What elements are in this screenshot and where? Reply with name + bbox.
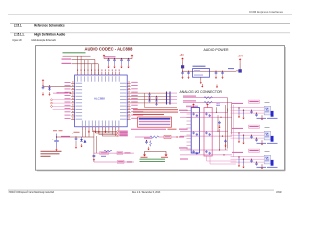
capacitor C60 top rows — [217, 104, 220, 106]
net label left of jack J5 — [232, 152, 243, 153]
ground D2 — [81, 144, 83, 146]
regulator U2 body — [193, 69, 210, 78]
header J1 body — [191, 108, 199, 154]
cluster resistor near table — [150, 141, 152, 147]
capacitor C50 — [181, 71, 184, 75]
wire +5V feed — [183, 62, 237, 71]
callout table box — [138, 117, 172, 127]
text row below table — [131, 129, 166, 130]
net label boxed row1 b — [117, 151, 123, 154]
codec U1 bottom pin names — [81, 121, 84, 127]
wire top row LINE2_L — [183, 97, 228, 99]
wire channel group 3 R — [180, 154, 232, 156]
wire vertical risers mid analog — [217, 107, 220, 150]
codec U1 left pins — [71, 83, 74, 119]
svg-text:AUDIO CODEC - ALC888: AUDIO CODEC - ALC888 — [85, 46, 134, 51]
net label row1 c — [125, 152, 131, 153]
ferrite bead column FB3 — [167, 92, 171, 105]
junction dots group 1 — [216, 112, 217, 113]
jack J3 body — [264, 106, 270, 115]
wire vertical bus right — [233, 105, 235, 157]
net labels bottom stack — [117, 131, 119, 133]
ground mark x94 — [93, 159, 95, 161]
wire HDA_SYNC — [72, 64, 99, 75]
ground row under codec — [88, 130, 90, 131]
capacitors in J1 group 3 — [192, 150, 194, 153]
note green top-left — [63, 52, 86, 53]
jack J3 rc network — [250, 110, 253, 114]
jack J4 barrel — [271, 136, 274, 142]
codec left net labels — [65, 81, 71, 84]
capacitor inline x94 — [93, 156, 96, 157]
wire HDA_BCLK vertical — [78, 56, 92, 72]
wire AVDD rail — [104, 58, 132, 60]
ground C41 — [75, 145, 77, 147]
jack J5 caption — [257, 167, 278, 168]
wire mid-bottom row 2 — [94, 161, 134, 163]
wire vertical x96.5 — [95, 136, 97, 153]
wire codec bottom verticals — [81, 130, 83, 137]
cluster label near table — [144, 138, 152, 139]
net label left of jack J4 — [232, 127, 243, 130]
junction dots group 3 — [219, 149, 220, 150]
wire red vertical right bundle — [145, 93, 178, 107]
resistor R13 blue squiggle — [104, 150, 112, 152]
frame shadow — [37, 47, 285, 171]
capacitors in J2 group 2 — [205, 131, 207, 134]
capacitor C30 column — [148, 93, 150, 103]
capacitor C11 — [113, 59, 116, 63]
svg-text:+3V3: +3V3 — [238, 56, 244, 58]
wire mic bias rail — [43, 83, 71, 86]
no-connect diamond AZ — [176, 136, 178, 138]
label FB1 value — [228, 67, 234, 70]
header rule — [8, 13, 292, 16]
jack J5 label CON — [265, 150, 270, 153]
label TP2 — [161, 157, 168, 158]
net label boxed AZ — [164, 135, 171, 138]
jack J3 barrel — [271, 111, 274, 117]
capacitor C20 — [42, 86, 45, 90]
heading rule 2.15.1.1 — [10, 32, 290, 35]
label TP1 — [141, 157, 148, 158]
ferrite bead FB1 — [238, 69, 241, 72]
wire bottom-left run — [57, 136, 94, 138]
header J1 left stubs — [187, 111, 192, 150]
callout table rows — [139, 118, 171, 120]
svg-text:107/218: 107/218 — [276, 191, 282, 194]
wire mid-bottom row 1 — [94, 152, 134, 154]
jack J5 barrel — [271, 160, 274, 166]
cluster ground near table — [148, 147, 150, 149]
capacitor C10 — [107, 59, 110, 63]
capacitor analog mid 1 — [218, 121, 221, 125]
test point TP2 — [165, 155, 168, 157]
jack J4 rc network — [250, 135, 253, 139]
codec U1 right pins — [127, 83, 130, 119]
note dark red bottom-left — [41, 151, 62, 152]
jack J5 wires — [231, 156, 264, 162]
ground jack J5 — [261, 164, 263, 166]
ground C40 — [56, 148, 58, 150]
codec U1 top pins — [78, 72, 120, 75]
net label filled pink — [186, 106, 198, 108]
resistor network jack J5 — [239, 157, 244, 165]
net label group 1 — [179, 110, 188, 111]
wire HDA_SDOUT — [72, 60, 95, 76]
capacitor C12 — [120, 59, 123, 63]
svg-text:ANALOG I/O CONNECTOR: ANALOG I/O CONNECTOR — [180, 89, 223, 94]
codec U1 top pin numbers — [77, 69, 78, 71]
wire below pink header — [207, 156, 237, 164]
svg-text:Rev. 2.0 / December 6, 2013: Rev. 2.0 / December 6, 2013 — [132, 191, 161, 194]
jack J4 body — [264, 131, 270, 140]
jack J3 wires — [231, 107, 264, 113]
ground regulator U2 — [200, 77, 202, 80]
wire vertical risers mid analog 2 — [226, 105, 228, 150]
codec U1 left pin numbers — [72, 82, 74, 83]
svg-text:Figure 39.: Figure 39. — [13, 38, 23, 42]
resistor network jack J4 — [239, 133, 244, 141]
wire cap stems down — [109, 62, 129, 65]
capacitor analog mid 2 — [224, 140, 227, 144]
label JD blue — [101, 156, 106, 157]
power arrows header top — [193, 105, 195, 108]
svg-text:2.15.1.: 2.15.1. — [14, 24, 22, 28]
ground jack J4 — [261, 140, 263, 142]
wire channel group 1 L — [180, 111, 228, 113]
ground arrow analog title right — [216, 85, 218, 87]
resistor R20 inline row1 — [204, 97, 212, 99]
no-connect diamonds left — [50, 99, 52, 101]
capacitor C51 — [187, 71, 190, 75]
ground cluster jack J3 — [238, 115, 240, 117]
wire AZ line to analog section — [135, 136, 176, 138]
wire bottom staircase to labels — [92, 131, 116, 133]
net label left of jack J3 — [232, 103, 243, 104]
codec U1 right pin names — [120, 82, 127, 85]
regulator U2 pin text — [194, 69, 200, 72]
power flag AVDD — [103, 56, 105, 59]
wire top row LINE2_R — [183, 101, 232, 103]
label C40 value — [53, 129, 57, 132]
net label HDA_SYNC — [62, 63, 72, 64]
jack J5 rc network — [250, 159, 253, 163]
wire channel group 2 R — [180, 135, 232, 137]
capacitor C13 — [127, 59, 130, 63]
net label boxed row1 a — [100, 151, 109, 154]
capacitors in J1 group 2 — [192, 131, 194, 134]
heading rule 2.15.1 — [10, 22, 290, 25]
codec U1 right pin numbers — [128, 82, 130, 83]
capacitors in J2 group 3 — [205, 150, 207, 153]
note green bottom middle — [140, 158, 166, 161]
svg-text:PICMG® COM Express® Carrier Bo: PICMG® COM Express® Carrier Board Design… — [9, 191, 54, 194]
jack J4 caption — [257, 143, 278, 144]
svg-text:+5V: +5V — [180, 54, 185, 57]
power flag +V left — [42, 81, 44, 84]
svg-text:COM Express Interfaces: COM Express Interfaces — [249, 10, 283, 14]
capacitor C31 column — [155, 96, 157, 106]
wire channel group 2 L — [180, 130, 228, 132]
net label below header — [180, 159, 188, 160]
jack J5 body — [264, 155, 270, 164]
wire vertical x94 — [93, 130, 95, 162]
wire bead to +3V3A — [236, 63, 240, 71]
wire mic in with label — [53, 92, 59, 94]
diode D1 — [48, 86, 51, 91]
ground arrow analog title left — [201, 84, 203, 86]
power flag AVDD right — [131, 56, 133, 59]
resistor network jack J3 — [239, 108, 244, 116]
jack J3 label CON — [265, 101, 270, 104]
codec U1 left pin names — [76, 82, 83, 85]
capacitors in J2 group 1 — [205, 112, 207, 115]
wire channel group 1 R — [180, 116, 232, 118]
jack J3 caption — [257, 118, 278, 119]
net labels right of codec — [131, 81, 138, 84]
note red mid — [133, 109, 178, 110]
capacitor C53 — [221, 71, 224, 75]
net label group 3 — [179, 147, 188, 148]
resistor R21 inline row2 — [204, 101, 212, 103]
header J2 body (pink) — [204, 108, 212, 157]
net label row2 b — [127, 161, 132, 162]
capacitors in J1 group 1 — [192, 112, 194, 115]
jack J4 wires — [231, 132, 264, 138]
codec U1 bottom pins — [82, 127, 119, 130]
power flag +3V3A — [239, 60, 241, 63]
svg-text:2.15.1.1.: 2.15.1.1. — [14, 33, 25, 37]
ferrite bead FB2 at +5V — [181, 65, 184, 68]
label C41 value — [74, 131, 80, 134]
net label group 2 — [179, 129, 188, 130]
svg-text:High Definition Audio: High Definition Audio — [34, 33, 65, 37]
svg-text:HDA Example Schematic: HDA Example Schematic — [32, 38, 57, 42]
ground cluster jack J5 — [238, 164, 240, 166]
regulator U2 label — [193, 66, 206, 67]
wire codec top bus — [63, 55, 91, 57]
net label boxed jack J5 — [249, 149, 260, 152]
jack J4 label CON — [265, 126, 270, 129]
net label boxed jack J3 — [249, 100, 260, 103]
ground jack J3 — [261, 115, 263, 117]
wire riser top row 1 — [228, 98, 232, 135]
net label HDA_SDOUT — [62, 59, 72, 60]
ground mic bias — [42, 92, 44, 94]
schematic frame — [36, 46, 285, 171]
footer rule — [8, 189, 274, 192]
wire codec right bundle — [131, 93, 170, 103]
diode D2 — [80, 137, 83, 142]
net label AUDIO 3V3 rail — [105, 56, 116, 57]
capacitor C52 — [215, 71, 218, 75]
net label boxed row2 — [118, 160, 125, 163]
ground C52 C53 — [215, 75, 217, 77]
net label inline mic — [61, 136, 70, 137]
svg-text:AUDIO POWER: AUDIO POWER — [204, 47, 229, 52]
ground C50 — [182, 75, 184, 77]
resistor R12 inline — [150, 136, 159, 138]
cluster cap near table — [145, 141, 148, 145]
test point TP1 — [143, 155, 146, 157]
svg-text:ALC888: ALC888 — [94, 97, 105, 101]
svg-text:Reference Schematics: Reference Schematics — [34, 24, 65, 28]
wire channel group 3 L — [180, 149, 228, 151]
wire codec left lower stubs — [53, 99, 72, 101]
wire bracket test points — [145, 152, 167, 155]
ground cluster jack J4 — [238, 140, 240, 142]
junction dots group 2 — [217, 131, 218, 132]
net label boxed jack J4 — [249, 125, 260, 128]
wire bundle exit right — [170, 93, 177, 103]
ground for C10-C13 — [108, 65, 110, 67]
codec U1 top pin names — [76, 76, 79, 82]
codec U1 ALC888 body — [75, 75, 128, 127]
